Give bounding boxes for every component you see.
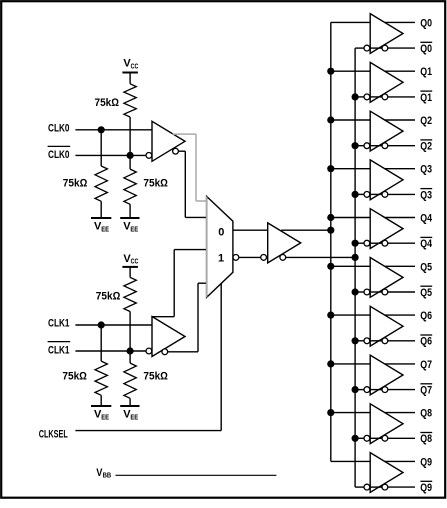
wire U13 output Q8bar <box>388 437 415 439</box>
wire bus to U14 input <box>331 460 370 462</box>
op-amp U4 central buffer <box>268 223 301 263</box>
ground VEE (R3) <box>120 217 139 219</box>
svg-text:75kΩ: 75kΩ <box>143 371 168 383</box>
wire U8 output Q3bar <box>388 193 415 195</box>
wire CLK0bar input line <box>75 154 146 156</box>
pin U2 inverted output bubble <box>162 349 168 355</box>
wire U14 output Q9 <box>385 460 415 462</box>
wire bus to U8 input <box>331 168 370 170</box>
wire inner bus to U13 inverting input <box>355 437 364 439</box>
pin U11 inverting input bubble <box>364 338 370 344</box>
wire VBB line <box>116 474 277 476</box>
svg-text:CC: CC <box>131 257 139 266</box>
node inner bus to Q5bar <box>352 288 359 295</box>
svg-text:EE: EE <box>130 413 138 422</box>
node inner bus to Q6bar <box>352 337 359 344</box>
svg-text:0: 0 <box>218 226 224 238</box>
svg-text:Q3: Q3 <box>420 189 432 201</box>
wire bus to U11 input <box>331 314 370 316</box>
node outer bus to Q6 <box>327 312 334 319</box>
wire U5 output Q0 <box>385 21 415 23</box>
wire inner bus to U10 inverting input <box>355 291 364 293</box>
wire U1 inverted output to mux <box>178 150 185 152</box>
node CLK1bar junction <box>127 347 134 354</box>
svg-text:75kΩ: 75kΩ <box>95 97 120 109</box>
pin U9 inverted output bubble <box>382 240 388 246</box>
wire U14 output Q9bar <box>388 486 415 488</box>
wire inner bus to U8 inverting input <box>355 193 364 195</box>
wire U7 output Q2bar <box>388 145 415 147</box>
pin U14 inverted output bubble <box>382 484 388 490</box>
pin U2 inverting input bubble <box>146 348 152 354</box>
op-amp U5 output driver Q0 <box>370 14 403 54</box>
svg-text:Q2: Q2 <box>420 115 432 127</box>
pin U6 inverted output bubble <box>382 94 388 100</box>
svg-text:Q3: Q3 <box>420 164 432 176</box>
svg-text:75kΩ: 75kΩ <box>63 178 88 190</box>
wire U6 output Q1 <box>385 70 415 72</box>
svg-text:Q1: Q1 <box>420 92 432 104</box>
op-amp U6 output driver Q1 <box>370 62 403 102</box>
pin U6 inverting input bubble <box>364 94 370 100</box>
wire U12 output Q7 <box>385 363 415 365</box>
svg-text:Q0: Q0 <box>420 17 432 29</box>
label output Q0bar <box>420 41 432 43</box>
wire CLK0 node down to R2 <box>100 130 102 166</box>
input CLK0bar label <box>48 145 71 147</box>
resistor R2 75k pulldown (CLK0) <box>95 166 107 201</box>
node inner bus to Q8bar <box>352 435 359 442</box>
svg-text:75kΩ: 75kΩ <box>62 371 87 383</box>
svg-text:Q5: Q5 <box>420 287 432 299</box>
pin U10 inverted output bubble <box>382 289 388 295</box>
op-amp U12 output driver Q7 <box>370 355 403 395</box>
wire bus to U5 input <box>331 21 370 23</box>
wire inner bus to U11 inverting input <box>355 340 364 342</box>
svg-text:75kΩ: 75kΩ <box>143 178 168 190</box>
wire inner bus (complement outputs) <box>354 48 356 487</box>
wire R6 to VEE <box>129 398 131 406</box>
svg-text:BB: BB <box>103 471 112 480</box>
wire VCC bar to R4 <box>129 267 131 278</box>
svg-text:Q6: Q6 <box>420 336 432 348</box>
resistor R5 75k pulldown (CLK1) <box>95 361 107 395</box>
wire between input and output bubbles <box>370 437 382 439</box>
svg-text:CC: CC <box>131 61 139 70</box>
wire U9 output Q4 <box>385 217 415 219</box>
pin U14 inverting input bubble <box>364 484 370 490</box>
node CLK0bar junction <box>127 152 134 159</box>
wire U7 output Q2 <box>385 119 415 121</box>
svg-text:CLK1: CLK1 <box>48 318 70 330</box>
svg-text:EE: EE <box>130 224 138 233</box>
node inner bus to Q7bar <box>352 386 359 393</box>
svg-text:Q2: Q2 <box>420 141 432 153</box>
svg-text:CLK1: CLK1 <box>48 344 70 356</box>
wire CLK0 input line <box>75 129 152 131</box>
wire bus to U6 input <box>331 70 370 72</box>
pin U4 inverting input bubble <box>261 255 267 261</box>
wire inner bus to U7 inverting input <box>355 145 364 147</box>
svg-text:Q4: Q4 <box>420 238 432 250</box>
wire CLK1bar input line <box>75 350 146 352</box>
pin U8 inverted output bubble <box>382 192 388 198</box>
pin U1 inverting input bubble <box>146 153 152 159</box>
wire between input and output bubbles <box>370 145 382 147</box>
wire U1 true output to mux (gray) <box>172 133 196 135</box>
svg-text:CLK0: CLK0 <box>48 122 70 134</box>
node inner bus to Q1bar <box>352 93 359 100</box>
wire bus to U12 input <box>331 363 370 365</box>
node CLK1 junction <box>98 321 105 328</box>
wire between input and output bubbles <box>370 242 382 244</box>
label output Q8bar <box>420 432 432 434</box>
wire bus to U9 input <box>331 217 370 219</box>
wire inner bus to U6 inverting input <box>355 96 364 98</box>
svg-text:CLKSEL: CLKSEL <box>39 428 68 440</box>
wire CLK1 input line <box>75 324 152 326</box>
svg-text:EE: EE <box>101 224 109 233</box>
pin U5 inverting input bubble <box>364 45 370 51</box>
mux U3 2:1 clock select <box>207 196 233 297</box>
node outer bus to Q1 <box>327 68 334 75</box>
resistor R3 75k pulldown (CLK0bar) <box>124 169 136 204</box>
op-amp U8 output driver Q3 <box>370 160 403 200</box>
wire R1 down to CLK0bar line (crosses CLK0 line) <box>129 117 131 155</box>
op-amp U10 output driver Q5 <box>370 258 403 298</box>
node outer bus to Q4 <box>327 214 334 221</box>
svg-text:EE: EE <box>101 413 109 422</box>
pin U5 inverted output bubble <box>382 45 388 51</box>
wire inner bus to U5 inverting input <box>355 47 364 49</box>
label output Q9bar <box>420 480 432 482</box>
svg-text:1: 1 <box>218 252 224 264</box>
wire bus to U10 input <box>331 265 370 267</box>
wire U2 true output to mux <box>152 316 174 318</box>
wire CLK1 node down to R5 <box>100 325 102 361</box>
pin U13 inverted output bubble <box>382 435 388 441</box>
resistor R4 75k pullup (CLK1 path) <box>124 277 136 311</box>
svg-text:Q6: Q6 <box>420 310 432 322</box>
wire U8 output Q3 <box>385 168 415 170</box>
ground VEE (R5) <box>91 405 111 407</box>
wire U4 true output to outer bus <box>281 229 331 231</box>
node outer bus to Q2 <box>327 116 334 123</box>
wire VCC bar to R1 <box>129 73 131 84</box>
label output Q6bar <box>420 334 432 336</box>
node inner bus to Q4bar <box>352 240 359 247</box>
pin U12 inverting input bubble <box>364 387 370 393</box>
op-amp U14 output driver Q9 <box>370 453 403 493</box>
wire U10 output Q5bar <box>388 291 415 293</box>
wire U10 output Q5 <box>385 265 415 267</box>
label output Q3bar <box>420 188 432 190</box>
wire outer bus (true outputs) <box>330 22 332 461</box>
svg-text:Q1: Q1 <box>420 66 432 78</box>
resistor R1 75k pullup (CLK0 path) <box>124 84 136 117</box>
wire between input and output bubbles <box>370 193 382 195</box>
op-amp U11 output driver Q6 <box>370 306 403 346</box>
svg-text:Q7: Q7 <box>420 385 432 397</box>
label output Q5bar <box>420 285 432 287</box>
wire mux inverted output <box>239 256 261 258</box>
node outer bus to Q7 <box>327 360 334 367</box>
node outer bus to Q8 <box>327 409 334 416</box>
node true bus join <box>327 227 334 234</box>
wire between input and output bubbles <box>370 291 382 293</box>
svg-text:Q0: Q0 <box>420 43 432 55</box>
wire mux true output <box>233 229 268 231</box>
pin U8 inverting input bubble <box>364 192 370 198</box>
svg-text:75kΩ: 75kΩ <box>96 291 121 303</box>
node complement bus join <box>352 254 359 261</box>
wire R5 to VEE <box>100 395 102 406</box>
label output Q1bar <box>420 90 432 92</box>
wire between input and output bubbles <box>370 389 382 391</box>
svg-text:Q7: Q7 <box>420 359 432 371</box>
wire U5 output Q0bar <box>388 47 415 49</box>
wire CLK1bar node down to R6 <box>129 351 131 363</box>
wire inner bus to U9 inverting input <box>355 242 364 244</box>
svg-text:Q8: Q8 <box>420 408 432 420</box>
node inner bus to Q2bar <box>352 142 359 149</box>
wire R3 to VEE <box>129 204 131 218</box>
wire U2 inverted output to mux <box>168 351 198 353</box>
pin U9 inverting input bubble <box>364 240 370 246</box>
wire R4 down to CLK1bar line (crosses CLK1 line) <box>129 312 131 352</box>
svg-text:Q4: Q4 <box>420 213 432 225</box>
node CLK0 junction <box>98 126 105 133</box>
pin U7 inverted output bubble <box>382 143 388 149</box>
label output Q2bar <box>420 139 432 141</box>
pin U10 inverting input bubble <box>364 289 370 295</box>
pin U11 inverted output bubble <box>382 338 388 344</box>
pin U7 inverting input bubble <box>364 143 370 149</box>
wire inner bus to U12 inverting input <box>355 389 364 391</box>
pin U12 inverted output bubble <box>382 387 388 393</box>
wire between input and output bubbles <box>370 340 382 342</box>
svg-text:Q8: Q8 <box>420 433 432 445</box>
input CLK1bar label <box>48 341 71 343</box>
svg-text:Q9: Q9 <box>420 482 432 494</box>
wire bus to U13 input <box>331 412 370 414</box>
wire between input and output bubbles <box>370 486 382 488</box>
ground VEE (R6) <box>120 405 139 407</box>
op-amp U13 output driver Q8 <box>370 404 403 444</box>
wire U11 output Q6bar <box>388 340 415 342</box>
op-amp U1 CLK0 input buffer <box>152 121 185 161</box>
op-amp U2 CLK1 input buffer <box>152 317 185 357</box>
wire U9 output Q4bar <box>388 242 415 244</box>
ground VEE (R2) <box>91 217 111 219</box>
pin U1 inverted output bubble <box>173 148 179 154</box>
wire U13 output Q8 <box>385 412 415 414</box>
pin U13 inverting input bubble <box>364 435 370 441</box>
wire U6 output Q1bar <box>388 96 415 98</box>
wire U12 output Q7bar <box>388 389 415 391</box>
wire U11 output Q6 <box>385 314 415 316</box>
wire between input and output bubbles <box>370 47 382 49</box>
wire between input and output bubbles <box>370 96 382 98</box>
wire bus to U7 input <box>331 119 370 121</box>
node inner bus to Q3bar <box>352 191 359 198</box>
svg-text:Q9: Q9 <box>420 456 432 468</box>
wire CLKSEL line <box>75 430 221 432</box>
wire CLK0bar node down to R3 <box>129 155 131 169</box>
wire inner bus to U14 inverting input <box>355 486 364 488</box>
svg-text:CLK0: CLK0 <box>48 149 70 161</box>
pin U4 inverted output bubble <box>280 255 286 261</box>
label output Q7bar <box>420 383 432 385</box>
svg-text:Q5: Q5 <box>420 261 432 273</box>
node outer bus to Q5 <box>327 263 334 270</box>
op-amp U9 output driver Q4 <box>370 209 403 249</box>
node outer bus to Q3 <box>327 165 334 172</box>
resistor R6 75k pulldown (CLK1bar) <box>124 363 136 398</box>
wire U4 inverted output to inner bus <box>286 256 355 258</box>
label output Q4bar <box>420 236 432 238</box>
mux left edge (gray) <box>206 196 208 297</box>
op-amp U7 output driver Q2 <box>370 111 403 151</box>
pin mux inverted output bubble <box>233 255 239 261</box>
wire R2 to VEE <box>100 201 102 218</box>
